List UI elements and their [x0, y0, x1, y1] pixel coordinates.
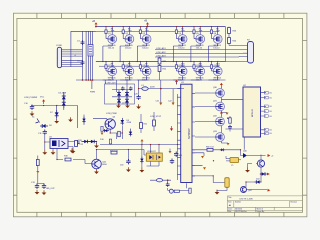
ground [125, 103, 130, 108]
svg-text:VCC: VCC [40, 97, 45, 99]
transistor Q32 (right bank) [195, 115, 224, 126]
capacitor C20 [134, 94, 141, 100]
optocoupler U3 [146, 151, 162, 161]
power port down above opto [170, 126, 173, 131]
svg-text:File:: File: [228, 211, 232, 213]
svg-text:100-10: 100-10 [125, 47, 132, 49]
power port +B left [92, 20, 98, 27]
transistor Q33 (right bank) [195, 131, 224, 142]
junction [167, 179, 169, 181]
capacitor C4 on bus [77, 60, 84, 65]
capacitor C3 on bus [77, 40, 84, 45]
power port above U1 [175, 80, 178, 85]
controller U1 [177, 82, 195, 183]
net label pin [264, 129, 272, 132]
transistor Q31 (right bank) [195, 100, 224, 111]
wire under Q20 [110, 126, 130, 140]
resistor R22 [158, 66, 167, 72]
resistor R30 [64, 156, 71, 161]
svg-text:100-10: 100-10 [213, 80, 220, 82]
svg-text:SM7352P: SM7352P [188, 128, 191, 139]
svg-text:LED T8 1-10W: LED T8 1-10W [240, 199, 253, 201]
transistor Q42 [241, 187, 253, 193]
svg-text:+B: +B [144, 20, 147, 23]
svg-text:10R: 10R [145, 31, 149, 33]
svg-text:Size: Size [228, 202, 231, 204]
capacitor C2 [129, 86, 133, 90]
resistor R23 [228, 27, 237, 38]
diode D1 [117, 90, 121, 98]
svg-text:PWM: PWM [90, 92, 95, 94]
svg-text:LOW_STOP: LOW_STOP [150, 116, 162, 118]
ground arrow mid2 [168, 101, 175, 106]
ground [68, 117, 73, 122]
svg-text:100-10: 100-10 [142, 47, 149, 49]
svg-text:R31 103: R31 103 [110, 150, 118, 152]
net label pin [264, 96, 272, 99]
svg-text:D0: D0 [270, 93, 272, 95]
capacitor C12 [75, 140, 84, 146]
title block [227, 196, 302, 212]
resistor R9 [101, 126, 103, 131]
ground arrow mid3 [203, 167, 206, 169]
svg-text:100-10: 100-10 [108, 47, 115, 49]
capacitor C14 [42, 184, 46, 189]
transistor Q4 (MOSFET) [173, 27, 187, 62]
svg-text:D0: D0 [270, 97, 272, 99]
resistor R11 [140, 123, 148, 129]
ground [245, 168, 250, 173]
sub-circuit box [105, 84, 135, 104]
capacitor C41 [166, 182, 170, 187]
net label pin [264, 132, 272, 135]
svg-text:D0: D0 [270, 111, 272, 113]
ground [42, 190, 47, 195]
resistor R61 [174, 190, 179, 192]
svg-text:100-10: 100-10 [142, 80, 149, 82]
resistor R24 [228, 38, 237, 44]
component Y2 vertical [225, 178, 229, 188]
junction [227, 118, 228, 119]
transistor Q30 (right bank) [195, 87, 224, 98]
diode D4 [125, 97, 129, 105]
ground arrow mid4 [201, 156, 204, 158]
svg-text:10R: 10R [128, 31, 132, 33]
capacitor C10 [24, 103, 34, 110]
net label pin [264, 105, 272, 108]
transistor Q10 (MOSFET) [173, 62, 187, 82]
svg-text:LOW_POWER: LOW_POWER [24, 97, 38, 99]
ground arrow right bank [226, 113, 229, 115]
wire feeds into box [105, 80, 132, 97]
net label wires LOW_x [155, 50, 248, 58]
ground [94, 143, 99, 148]
wire bank feed into U1 [139, 80, 184, 180]
bottom middle parts under U1 [150, 180, 190, 190]
svg-text:+B: +B [92, 20, 95, 23]
transistor Q3 (MOSFET) [137, 27, 151, 62]
diode D10 [82, 140, 89, 144]
transistor Q41 [257, 160, 264, 167]
capacitor C11 [38, 130, 47, 136]
capacitor C30 [228, 125, 232, 130]
wire Q21 collector [73, 150, 146, 170]
wires right bank [221, 87, 243, 143]
svg-text:LOW_AD3: LOW_AD3 [156, 54, 166, 57]
power port down near opto [141, 139, 144, 145]
ground [94, 169, 99, 174]
svg-text:LOW+12V: LOW+12V [106, 83, 117, 85]
svg-text:LOW_AD1: LOW_AD1 [156, 47, 166, 50]
wire: gate bus row1 [71, 30, 219, 32]
svg-text:Title: Title [228, 196, 231, 199]
fuse F1 [142, 85, 149, 91]
svg-text:100-10: 100-10 [213, 47, 220, 49]
power port right bank [220, 83, 223, 88]
svg-text:D5 4148: D5 4148 [59, 93, 67, 95]
junction dots on bus [82, 26, 149, 81]
capacitor C1 [121, 86, 125, 90]
transistor Q20 [105, 113, 117, 129]
power port down left of Q20 [101, 131, 104, 135]
wire R32 to opto region [147, 145, 160, 167]
diode D11 [89, 140, 96, 144]
zener D12 [129, 130, 132, 137]
diode D13 on bus leg [82, 115, 85, 126]
wire under Y2 [217, 187, 227, 190]
svg-text:D0: D0 [270, 106, 272, 108]
transistor Q11 (MOSFET) [191, 62, 205, 82]
resistor R60 [206, 147, 214, 152]
power arrow right [268, 154, 275, 158]
resistor R13 [109, 139, 111, 144]
ground [215, 190, 220, 195]
svg-text:10R: 10R [181, 31, 185, 33]
diode D2 [125, 90, 129, 98]
power arrow [268, 189, 271, 192]
resistor R33 [75, 140, 83, 147]
power port right bank 2 [220, 111, 223, 116]
wire rail to F1 [160, 80, 162, 89]
wire: collect rail under row2 [76, 79, 226, 81]
svg-text:D0: D0 [270, 130, 272, 132]
transistor Q1 (MOSFET) [103, 27, 117, 62]
wire: gate bus row2 [99, 65, 219, 67]
svg-text:10R: 10R [216, 31, 220, 33]
resistor R21 [158, 57, 167, 80]
wire bottom-left cluster [37, 184, 44, 186]
transistor Q2 (MOSFET) [120, 27, 134, 62]
diode D15 left of Q3 [93, 119, 109, 132]
ground [136, 104, 141, 109]
transistor Q40 [241, 151, 266, 159]
ground [51, 150, 56, 155]
diode D14 below wire [140, 157, 145, 173]
transistor Q5 (MOSFET) [191, 27, 205, 62]
optocoupler U4 [49, 137, 68, 149]
ground [70, 148, 75, 153]
wire into U4 [45, 135, 78, 160]
ground [71, 149, 76, 154]
diode D21 [260, 172, 270, 176]
svg-text:LOW_PWM: LOW_PWM [106, 113, 117, 115]
wire from U1 pins right [192, 150, 241, 183]
svg-text:100-10: 100-10 [196, 47, 203, 49]
diode D3 [117, 97, 121, 105]
transistor Q8 (MOSFET) [120, 62, 134, 82]
svg-text:D0: D0 [270, 116, 272, 118]
capacitor C23 [174, 152, 183, 158]
svg-text:Number: Number [235, 201, 241, 204]
switch S1 [32, 117, 40, 124]
junction [160, 88, 162, 90]
svg-text:CON8: CON8 [56, 45, 62, 47]
capacitor C24 [170, 159, 174, 164]
svg-text:10R: 10R [128, 66, 132, 68]
capacitor C15 [120, 159, 131, 172]
svg-text:LED-T8.SchDoc: LED-T8.SchDoc [235, 211, 247, 213]
svg-text:10R: 10R [111, 66, 115, 68]
ground [35, 190, 40, 195]
controller U2 [243, 85, 266, 137]
transistor Q6 (MOSFET) [208, 27, 222, 62]
connector P2 (right) [226, 27, 254, 63]
power port +B right [144, 20, 149, 27]
gate bus wires [71, 31, 96, 89]
resistor R10 [118, 131, 121, 136]
resistor R31 [110, 150, 118, 154]
resistor R62 [189, 188, 191, 193]
svg-text:100-10: 100-10 [125, 80, 132, 82]
power port down right of opto [169, 149, 172, 154]
svg-text:10R: 10R [111, 31, 115, 33]
zener D7 [50, 110, 59, 118]
zener D22 [255, 179, 262, 184]
ground [54, 119, 59, 124]
ground [116, 103, 121, 108]
transistor Q12 (MOSFET) [208, 62, 222, 82]
net label pin [264, 115, 272, 118]
svg-text:C9 104: C9 104 [122, 103, 129, 105]
sheet page [12, 12, 307, 217]
svg-text:U3 EL817: U3 EL817 [147, 151, 157, 153]
diode D6 [62, 100, 66, 108]
vertical chain w/ resistor R29 [37, 156, 39, 184]
resistor R50 [229, 118, 232, 123]
svg-text:100-10: 100-10 [108, 80, 115, 82]
capacitor C13 [31, 182, 39, 189]
ground [30, 111, 35, 116]
wire lower right [246, 174, 261, 187]
border frame [13, 13, 307, 217]
ground [42, 150, 47, 155]
svg-text:10R: 10R [145, 66, 149, 68]
wire rows mid [81, 112, 181, 163]
svg-text:100-10: 100-10 [196, 80, 203, 82]
wire: drain rail row2 [96, 61, 226, 63]
diode D20 [220, 148, 226, 151]
component box on bus [88, 45, 93, 57]
svg-text:100-10: 100-10 [178, 47, 185, 49]
transistor Q7 (MOSFET) [103, 62, 117, 82]
component Y1 [226, 156, 241, 167]
resistor R12 [150, 116, 162, 126]
wire: left horizontal rail [31, 92, 78, 128]
svg-text:R60 103: R60 103 [206, 147, 214, 149]
wire: drain rail row1 [96, 26, 226, 28]
svg-text:LOW_AD2: LOW_AD2 [156, 51, 166, 54]
power port VCC [40, 97, 45, 104]
wire [244, 137, 267, 190]
diode D8 [40, 124, 52, 128]
ground arrow mid [156, 101, 163, 106]
net label pin [264, 110, 272, 113]
svg-text:D0: D0 [270, 133, 272, 135]
transistor Q21 [92, 159, 108, 169]
net label pin [264, 91, 272, 94]
ground arrow right bank 2 [227, 143, 230, 145]
svg-text:BP3126: BP3126 [252, 108, 254, 117]
fuse F2 [157, 179, 163, 182]
svg-text:10R: 10R [199, 31, 203, 33]
svg-text:400V: 400V [150, 87, 155, 89]
varistor comp [169, 189, 173, 193]
wire Q41 [248, 155, 262, 175]
svg-text:AD_OUT: AD_OUT [47, 187, 56, 190]
connector P1 (left) [56, 45, 83, 68]
transistor Q9 (MOSFET) [137, 62, 151, 82]
svg-text:Revision: Revision [291, 202, 298, 204]
svg-text:Drawn By:: Drawn By: [257, 210, 265, 213]
diode D5 [59, 93, 67, 102]
diode D9 vertical [121, 118, 132, 125]
